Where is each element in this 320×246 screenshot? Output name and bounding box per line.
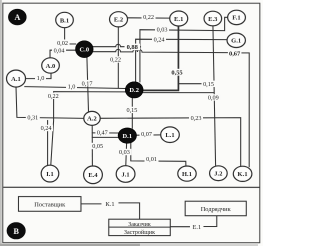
svg-text:0,24: 0,24 <box>154 36 165 43</box>
outer border frame <box>3 3 260 243</box>
svg-text:A.1: A.1 <box>11 76 21 83</box>
svg-text:0,23: 0,23 <box>191 115 202 122</box>
svg-text:0,88: 0,88 <box>127 44 138 51</box>
svg-text:L.1: L.1 <box>165 132 174 139</box>
svg-text:B: B <box>13 227 19 236</box>
wire B.1 to C.0 <box>65 28 76 44</box>
node F.1 <box>228 10 246 24</box>
svg-text:0,03: 0,03 <box>157 27 168 34</box>
wire to I.1 second (0,24) <box>47 121 49 166</box>
label 0,03 lower <box>117 149 131 156</box>
edge value labels <box>26 14 242 163</box>
svg-text:E.2: E.2 <box>114 17 123 24</box>
marker B subfigure <box>7 223 25 239</box>
wire D.2 to D.1 (0,15) <box>131 98 133 128</box>
wire D.2 left lower to I.1 (0,22) <box>51 92 126 166</box>
svg-text:0,24: 0,24 <box>41 125 52 132</box>
wire A.2 to K.1 (0,23) <box>100 118 241 167</box>
svg-text:I.1: I.1 <box>46 171 54 178</box>
wire to E.1 label <box>170 226 190 228</box>
marker A subfigure <box>8 9 26 25</box>
black nodes <box>7 9 143 239</box>
svg-text:0,09: 0,09 <box>208 95 219 102</box>
label 0,22 left vertical <box>46 93 60 100</box>
wire E.3 down to J.2 (0,09) <box>213 26 216 166</box>
svg-text:Подрядчик: Подрядчик <box>201 206 232 213</box>
svg-text:E.1: E.1 <box>174 16 183 23</box>
svg-text:0,15: 0,15 <box>203 81 214 88</box>
label 0,15 right <box>202 81 216 88</box>
svg-text:0,17: 0,17 <box>82 80 93 87</box>
label 0,24 lower <box>39 125 53 132</box>
label 0,07 <box>139 130 153 137</box>
node J.1 <box>116 166 135 183</box>
svg-text:E.4: E.4 <box>88 172 98 179</box>
wire A.2 to D.1 (0,47) <box>92 132 118 134</box>
wire A.2 to E.4 (0,05) <box>91 125 93 166</box>
svg-text:0,47: 0,47 <box>97 130 108 137</box>
svg-text:0,55: 0,55 <box>171 70 182 77</box>
svg-text:G.1: G.1 <box>231 38 241 45</box>
node A.2 <box>84 111 100 125</box>
node E.2 <box>110 12 128 27</box>
legend box Поставщик <box>18 197 81 212</box>
wire A.1 to A.2 (0,31) <box>16 87 84 118</box>
label 0,04 <box>52 47 66 54</box>
svg-text:0,01: 0,01 <box>146 156 157 163</box>
wire G.1 to D.2 (0,24) <box>136 39 228 82</box>
svg-text:Поставщик: Поставщик <box>34 202 66 209</box>
node D.2 black <box>125 82 143 98</box>
node J.2 <box>210 166 228 181</box>
wire D.1 to J.1 (0,03) <box>125 143 128 165</box>
node C.0 black <box>76 41 94 58</box>
legend box Заказчик/Застройщик <box>109 219 171 235</box>
node A.0 <box>42 58 60 73</box>
svg-text:0,04: 0,04 <box>54 48 65 55</box>
svg-text:K.1: K.1 <box>238 171 248 178</box>
wire A.2/E.4 branch to D.1 second <box>92 136 118 138</box>
svg-text:0,15: 0,15 <box>126 107 137 114</box>
wire branch 0,15 <box>178 83 214 85</box>
svg-text:D.2: D.2 <box>129 87 139 94</box>
svg-text:B.1: B.1 <box>60 17 69 24</box>
svg-text:A: A <box>14 13 20 22</box>
svg-text:0,22: 0,22 <box>143 14 154 21</box>
node I.1 <box>41 165 59 182</box>
label 0,05 <box>91 143 105 150</box>
node D.1 black <box>118 128 136 143</box>
legend separator <box>3 186 259 188</box>
label 0,09 <box>206 94 220 101</box>
svg-text:0,22: 0,22 <box>48 93 59 100</box>
wire to K.1 label <box>81 203 102 205</box>
node E.4 <box>84 166 103 184</box>
svg-text:0,31: 0,31 <box>27 114 38 121</box>
svg-text:0,02: 0,02 <box>57 40 68 47</box>
svg-text:A.0: A.0 <box>46 63 56 70</box>
label 0,24 top <box>152 36 166 43</box>
svg-text:0,03: 0,03 <box>119 149 130 156</box>
wire A.0 to C.0 <box>50 50 76 58</box>
label 0,22 E2 vertical <box>109 56 123 63</box>
svg-text:J.1: J.1 <box>121 171 129 178</box>
node A.1 <box>7 70 26 87</box>
wire E.1 to D.2 (0,55) heavy <box>143 26 178 91</box>
wire C.0 to A.2 (0,17) <box>87 57 89 111</box>
svg-text:1,0: 1,0 <box>68 83 76 90</box>
svg-text:Застройщик: Застройщик <box>124 229 155 236</box>
svg-text:Заказчик: Заказчик <box>128 222 151 228</box>
wire A.1 to D.2 (1,0) <box>25 87 126 89</box>
svg-text:0,05: 0,05 <box>92 143 103 150</box>
label 0,15 mid <box>125 107 139 114</box>
node G.1 <box>227 33 245 47</box>
page scan edges <box>0 0 2 246</box>
node E.1 <box>170 11 188 26</box>
node E.3 <box>204 11 222 26</box>
wire D.1 to L.1 (0,07) <box>136 134 160 136</box>
label 0,88 bold <box>125 44 141 52</box>
svg-text:C.0: C.0 <box>79 46 89 53</box>
legend box Подрядчик <box>185 201 246 216</box>
wire D.1 to H.1 (0,01) <box>131 143 186 166</box>
wire F.1 to D.2 (0,03) <box>140 17 228 82</box>
wire C.0 lower line continuing to K.1 (0,67) <box>92 49 249 166</box>
label 0,47 <box>95 129 109 136</box>
label 0,31 <box>26 114 40 121</box>
wire E.2 to E.1 (0,22) <box>127 17 170 19</box>
svg-text:1,0: 1,0 <box>37 75 45 82</box>
label 0,02 <box>56 39 70 46</box>
svg-text:0,07: 0,07 <box>141 131 152 138</box>
node H.1 <box>178 166 196 181</box>
svg-text:Е.1: Е.1 <box>192 224 201 231</box>
label 0,22 E2-E1 <box>142 14 156 21</box>
svg-text:0,22: 0,22 <box>110 57 121 64</box>
label 0,01 <box>144 156 158 163</box>
label 0,23 <box>189 115 203 122</box>
wire A.1 to A.0 (1,0) <box>25 73 51 78</box>
wire D.2 right to E.3 vertical <box>143 92 214 94</box>
label 0,67 bold <box>228 50 242 57</box>
label 1,0 upper <box>35 74 46 81</box>
wire C.0 to D.2 upper (0,88) <box>93 44 141 47</box>
svg-text:F.1: F.1 <box>232 15 240 22</box>
svg-text:A.2: A.2 <box>87 116 97 123</box>
wire E.2 down to D.2 (0,22) <box>117 25 119 88</box>
svg-text:H.1: H.1 <box>182 171 192 178</box>
svg-text:0,67: 0,67 <box>229 51 241 58</box>
node K.1 <box>233 166 252 181</box>
svg-text:D.1: D.1 <box>122 133 132 140</box>
label 0,17 <box>80 80 94 87</box>
label 1,0 long <box>66 83 77 90</box>
node L.1 <box>161 127 180 143</box>
svg-text:E.3: E.3 <box>208 16 217 23</box>
svg-text:J.2: J.2 <box>214 171 222 178</box>
svg-text:К.1: К.1 <box>105 201 114 208</box>
label 0,03 top <box>155 26 169 33</box>
label 0,55 bold <box>170 69 185 77</box>
node B.1 <box>56 12 74 27</box>
